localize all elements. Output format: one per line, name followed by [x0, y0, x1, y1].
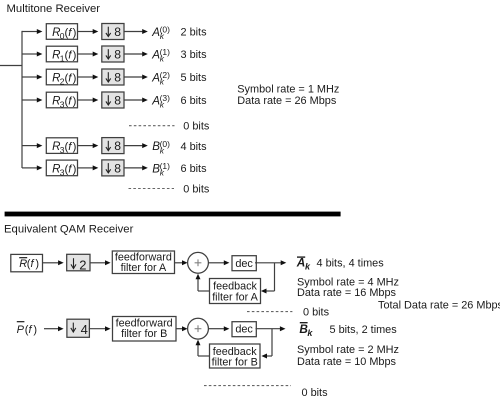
svg-text:0 bits: 0 bits — [302, 387, 329, 398]
downsample-by-2 box — [67, 254, 90, 272]
svg-text:5 bits, 2 times: 5 bits, 2 times — [330, 324, 398, 336]
summer (+) path A — [188, 252, 209, 273]
wire: branch row 6 — [22, 167, 37, 169]
wire: downsampler to feedforward A — [90, 262, 105, 264]
wire: dec A output — [255, 262, 281, 264]
wire: feedforward B to summer — [176, 328, 182, 330]
svg-text:P: P — [17, 324, 25, 336]
wire: branch row 1 — [22, 31, 37, 33]
svg-text:6 bits: 6 bits — [181, 163, 208, 175]
svg-text:Data rate = 10 Mbps: Data rate = 10 Mbps — [297, 356, 397, 368]
wire: downsampler to output row 4 — [124, 99, 142, 101]
wire: into feedback B box — [267, 355, 272, 357]
svg-text:filter for A: filter for A — [212, 291, 258, 303]
wire: dec A feedback drop — [274, 263, 276, 291]
wire: summer A to dec — [208, 262, 224, 264]
downsample-by-8 box row 4 — [102, 92, 124, 108]
svg-text:dec: dec — [235, 324, 253, 336]
node Ak(3) output label row 4 — [151, 93, 170, 110]
wire: R box to downsampler row 1 — [78, 31, 94, 33]
filter R0(f) row 1 — [46, 24, 77, 41]
svg-text:(f): (f) — [65, 49, 77, 61]
filter R3(f) row 5 — [46, 138, 77, 155]
svg-text:filter for B: filter for B — [212, 357, 258, 369]
feedforward filter for A box — [112, 251, 174, 274]
wire: R box to downsampler row 5 — [78, 145, 94, 147]
node Pbar(f) input label — [17, 322, 37, 336]
svg-text:(f): (f) — [65, 163, 77, 175]
svg-text:0 bits: 0 bits — [183, 183, 210, 195]
filter Rbar(f) input box (path A) — [11, 254, 43, 271]
downsample-by-8 box row 1 — [102, 24, 124, 40]
wire: downsampler to output row 1 — [124, 31, 142, 33]
svg-text:4 bits, 4 times: 4 bits, 4 times — [317, 258, 385, 270]
dashed line path A unused — [247, 311, 292, 313]
node Bbar_k label — [299, 322, 313, 338]
wire: branch row 5 — [22, 145, 37, 147]
svg-text:(f): (f) — [65, 27, 77, 39]
svg-text:4: 4 — [81, 322, 88, 337]
svg-text:k: k — [305, 262, 311, 272]
svg-text:Data rate = 26 Mbps: Data rate = 26 Mbps — [237, 95, 337, 107]
svg-text:(0): (0) — [160, 25, 171, 35]
svg-text:(3): (3) — [160, 93, 171, 103]
svg-text:Multitone Receiver: Multitone Receiver — [7, 3, 101, 15]
wire: R box to downsampler row 2 — [78, 53, 94, 55]
svg-text:(f): (f) — [65, 72, 77, 84]
filter R3(f) row 4 — [46, 92, 77, 109]
svg-text:2 bits: 2 bits — [181, 27, 208, 39]
wire: downsampler to feedforward B — [89, 328, 105, 330]
feedback filter for B box — [210, 344, 261, 369]
svg-text:(f): (f) — [65, 95, 77, 107]
svg-text:(1): (1) — [160, 161, 171, 171]
wire: dec B feedback drop — [271, 329, 273, 356]
wire: Pbar to downsample-by-4 — [44, 328, 58, 330]
dec box path B — [232, 322, 256, 337]
svg-text:8: 8 — [114, 25, 121, 39]
dashed line after B rows — [129, 188, 175, 190]
wire: into feedback A box — [266, 290, 274, 292]
svg-text:3 bits: 3 bits — [181, 49, 208, 61]
svg-text:Total Data rate = 26 Mbps: Total Data rate = 26 Mbps — [378, 300, 500, 312]
svg-text:(f): (f) — [27, 258, 39, 270]
wire: summer B to dec — [208, 328, 224, 330]
svg-text:8: 8 — [114, 139, 121, 153]
svg-text:k: k — [307, 328, 313, 338]
svg-text:Data rate = 16 Mbps: Data rate = 16 Mbps — [297, 287, 397, 299]
svg-text:0 bits: 0 bits — [183, 121, 210, 133]
svg-text:8: 8 — [114, 161, 121, 175]
svg-text:dec: dec — [235, 258, 253, 270]
wire: branch row 4 — [22, 99, 37, 101]
dashed line path B unused — [204, 385, 291, 387]
feedforward filter for B box — [113, 317, 177, 342]
wire: downsampler to output row 6 — [124, 167, 142, 169]
wire: feedforward A to summer — [175, 262, 183, 264]
filter R2(f) row 3 — [46, 69, 77, 86]
wire: feedback B to summer — [198, 355, 210, 357]
wire: branch row 3 — [22, 76, 37, 78]
dec box path A — [232, 256, 256, 271]
svg-text:Equivalent QAM Receiver: Equivalent QAM Receiver — [4, 223, 134, 235]
wire: Rbar to downsample-by-2 — [43, 262, 59, 264]
separator bar — [5, 212, 341, 217]
svg-text:filter for A: filter for A — [121, 262, 167, 274]
wire: downsampler to output row 2 — [124, 53, 142, 55]
svg-text:(f): (f) — [25, 324, 37, 336]
svg-text:2: 2 — [79, 258, 86, 273]
downsample-by-8 box row 6 — [102, 160, 124, 176]
wire: downsampler to output row 3 — [124, 76, 142, 78]
feedback filter for A box — [210, 279, 261, 304]
svg-text:Symbol rate = 2 MHz: Symbol rate = 2 MHz — [297, 344, 399, 356]
wire: downsampler to output row 5 — [124, 145, 142, 147]
wire: feedback A to summer — [198, 290, 210, 292]
wire: R box to downsampler row 4 — [78, 99, 94, 101]
downsample-by-8 box row 2 — [102, 46, 124, 62]
wire: R box to downsampler row 6 — [78, 167, 94, 169]
wire: branch row 2 — [22, 53, 37, 55]
node Ak(1) output label row 2 — [151, 47, 170, 64]
downsample-by-8 box row 5 — [102, 138, 124, 154]
svg-text:Symbol rate = 1 MHz: Symbol rate = 1 MHz — [237, 84, 339, 96]
node Ak(0) output label row 1 — [151, 25, 170, 42]
wire: dec B output — [256, 328, 281, 330]
svg-text:(f): (f) — [65, 141, 77, 153]
node Bk(0) output label row 5 — [152, 139, 170, 156]
svg-text:8: 8 — [114, 94, 121, 108]
svg-text:8: 8 — [114, 48, 121, 62]
svg-text:6 bits: 6 bits — [181, 95, 208, 107]
downsample-by-4 box — [67, 319, 90, 337]
wire: R box to downsampler row 3 — [78, 76, 94, 78]
svg-text:(0): (0) — [160, 139, 171, 149]
svg-text:5 bits: 5 bits — [181, 72, 208, 84]
filter R3(f) row 6 — [46, 160, 77, 177]
wire: input line — [0, 65, 22, 67]
svg-text:(2): (2) — [160, 70, 171, 80]
downsample-by-8 box row 3 — [102, 69, 124, 85]
svg-text:4 bits: 4 bits — [181, 141, 208, 153]
node Abar_k label — [296, 256, 311, 272]
wire: input bus vertical — [21, 31, 23, 168]
svg-text:8: 8 — [114, 71, 121, 85]
svg-text:filter for B: filter for B — [121, 328, 167, 340]
svg-text:(1): (1) — [160, 47, 171, 57]
svg-text:0 bits: 0 bits — [303, 306, 330, 318]
summer (+) path B — [188, 318, 209, 339]
node Ak(2) output label row 3 — [151, 70, 170, 87]
dashed line after A rows — [129, 125, 175, 127]
filter R1(f) row 2 — [46, 46, 77, 63]
node Bk(1) output label row 6 — [152, 161, 170, 178]
